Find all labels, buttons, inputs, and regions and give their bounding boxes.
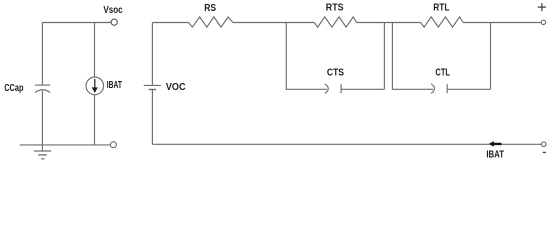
svg-text:RTL: RTL xyxy=(433,3,449,14)
svg-text:IBAT: IBAT xyxy=(107,80,122,91)
wire bottom-left rail xyxy=(20,144,111,146)
current source IBAT xyxy=(86,77,104,95)
svg-text:Vsoc: Vsoc xyxy=(103,5,123,16)
resistor RTS xyxy=(314,17,357,27)
svg-text:CCap: CCap xyxy=(4,83,23,94)
svg-text:IBAT: IBAT xyxy=(486,150,504,161)
wire bottom rail right circuit xyxy=(152,143,541,145)
node + terminal xyxy=(541,20,545,24)
wire IBAT branch upper xyxy=(94,23,96,78)
svg-text:CTS: CTS xyxy=(327,67,344,78)
wire top main: VOC to RS xyxy=(152,22,188,24)
wire top main: RS to RTS xyxy=(233,22,314,24)
arrow IBAT (discharge current) xyxy=(489,141,502,147)
svg-text:RS: RS xyxy=(204,3,216,14)
resistor RS xyxy=(189,17,233,27)
wire RTL loop right vertical xyxy=(447,23,490,90)
resistor RTL xyxy=(421,17,464,27)
wire IBAT branch lower xyxy=(94,95,96,145)
capacitor CTL xyxy=(431,84,447,94)
battery VOC xyxy=(144,23,161,145)
wire RTL loop left vertical xyxy=(392,23,433,90)
capacitor CTS xyxy=(325,84,341,94)
label + xyxy=(538,3,546,11)
node - terminal xyxy=(541,142,546,147)
svg-text:RTS: RTS xyxy=(326,2,344,13)
wire top-left horizontal xyxy=(42,22,110,24)
node left bottom terminal xyxy=(110,142,116,148)
svg-text:CTL: CTL xyxy=(435,67,450,78)
ground xyxy=(34,151,51,159)
node Vsoc terminal xyxy=(111,19,117,25)
wire RTS loop right vertical xyxy=(341,23,384,90)
wire left vertical upper xyxy=(41,23,43,85)
svg-text:VOC: VOC xyxy=(166,82,186,93)
label - xyxy=(543,151,546,153)
wire left vertical lower xyxy=(41,91,43,151)
wire RTS loop left vertical xyxy=(286,23,327,90)
wire top main: RTS to RTL xyxy=(357,22,421,24)
wire top main: RTL to + terminal xyxy=(463,22,541,24)
capacitor CCap xyxy=(35,85,50,93)
